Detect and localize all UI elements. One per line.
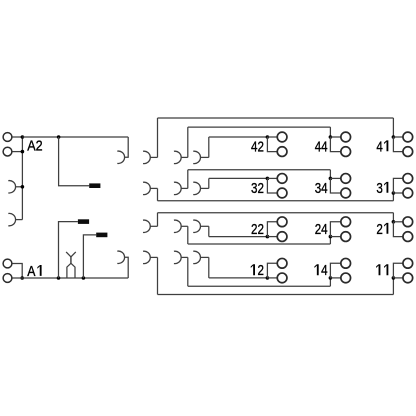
svg-text:4: 4 xyxy=(321,180,327,197)
junction terminal 12 xyxy=(266,276,270,280)
wire bus riser to terminal 44 xyxy=(329,127,331,137)
wire to 44 near circle xyxy=(330,136,340,138)
wire A2 upper circle to bus xyxy=(13,136,23,138)
wire to 44 far circle xyxy=(330,137,340,152)
svg-text:4: 4 xyxy=(321,221,327,238)
wire row4 B dropper xyxy=(187,257,189,286)
wire row1 C riser xyxy=(208,137,210,157)
LED/suppressor bar 1 xyxy=(89,183,100,188)
terminal circle 24 upper xyxy=(341,217,351,227)
junction terminal 32 xyxy=(266,177,270,181)
bus to terminal 34 xyxy=(188,169,331,171)
junction terminal 31 xyxy=(392,191,396,195)
wire to terminal 32 xyxy=(209,177,268,179)
wire bus riser to terminal 11 xyxy=(392,278,394,295)
wire socket to bus xyxy=(16,186,23,188)
junction coil branch on A2 wire xyxy=(57,135,61,139)
svg-text:4: 4 xyxy=(321,262,327,279)
terminal circle 11 upper xyxy=(403,258,413,268)
wire row3 A riser xyxy=(157,213,159,227)
bus to terminal 21 xyxy=(158,212,394,214)
terminal circle A2 (lower) xyxy=(3,147,12,156)
wire A2 branch down to LED bar 1 xyxy=(59,137,90,186)
terminal circle A2 (upper) xyxy=(3,133,12,142)
left plug contact row1 xyxy=(117,151,124,163)
bus to terminal 41 xyxy=(158,117,394,119)
svg-text:A2: A2 xyxy=(27,138,42,155)
terminal circle 12 upper xyxy=(277,258,287,268)
bus to terminal 11 xyxy=(158,294,394,296)
wire row1 A stub xyxy=(150,156,157,158)
wire row2 A stub xyxy=(150,187,157,189)
wire row1 B riser xyxy=(187,127,189,157)
wire row2 B riser xyxy=(187,170,189,189)
wire to 42 near circle xyxy=(267,136,277,138)
wire row4 C dropper xyxy=(208,257,210,278)
plug contact row1 B xyxy=(174,151,181,163)
wire row3 A stub xyxy=(150,225,157,227)
coil crossed symbol (relay coil) xyxy=(66,252,75,278)
wire to 21 far circle xyxy=(393,222,403,237)
terminal circle 32 lower xyxy=(277,188,287,198)
wire to 32 far circle xyxy=(267,178,277,193)
terminal circle 31 upper xyxy=(403,174,413,184)
terminal circle 21 lower xyxy=(403,232,413,242)
wire to 22 near circle xyxy=(267,236,277,238)
pin label 14 xyxy=(314,264,318,275)
junction left bus mid xyxy=(21,185,25,189)
wire A1 main xyxy=(13,277,129,279)
terminal circle 22 lower xyxy=(277,232,287,242)
svg-text:2: 2 xyxy=(257,262,263,279)
junction terminal 14 xyxy=(329,276,333,280)
junction terminal 42 xyxy=(266,135,270,139)
wire to 34 far circle xyxy=(330,178,340,193)
wire row4 A dropper xyxy=(157,257,159,294)
svg-text:2: 2 xyxy=(257,138,263,155)
junction terminal 21 xyxy=(392,220,396,224)
wire to 14 far circle xyxy=(330,263,340,278)
terminal circle 34 upper xyxy=(341,174,351,184)
wire to 41 near circle xyxy=(393,136,403,138)
wire row2 A dropper xyxy=(157,188,159,200)
junction terminal 24 xyxy=(329,235,333,239)
left plug contact row4 xyxy=(117,251,124,263)
wire bus riser to terminal 34 xyxy=(329,170,331,179)
wire to 12 near circle xyxy=(267,277,277,279)
terminal circle 22 upper xyxy=(277,217,287,227)
terminal circle 41 lower xyxy=(403,147,413,157)
junction terminal 34 xyxy=(329,177,333,181)
wire bus riser to terminal 41 xyxy=(392,118,394,137)
terminal circle A1 (lower) xyxy=(3,274,12,283)
junction terminal 11 xyxy=(392,276,396,280)
terminal circle 32 upper xyxy=(277,174,287,184)
LED/suppressor bar 3 xyxy=(96,233,107,238)
wire row1 C stub xyxy=(201,156,209,158)
pin label 12 xyxy=(251,264,255,275)
svg-text:2: 2 xyxy=(376,221,382,238)
wire row4 C stub xyxy=(201,256,209,258)
terminal circle 14 lower xyxy=(341,273,351,283)
wire socket to bus end xyxy=(16,219,23,221)
svg-text:4: 4 xyxy=(376,138,382,155)
socket contact on left bus (bottom) xyxy=(8,213,15,225)
terminal circle 44 lower xyxy=(341,147,351,157)
junction terminal 41 xyxy=(392,135,396,139)
wire row3 B dropper xyxy=(187,226,189,244)
plug contact row3 B xyxy=(174,220,181,232)
wire to 11 far circle xyxy=(393,263,403,278)
wire to 32 near circle xyxy=(267,177,277,179)
wire A2 node to input network xyxy=(22,136,128,138)
plug contact row2 B xyxy=(174,182,181,194)
wire to 11 near circle xyxy=(393,277,403,279)
wire to 42 far circle xyxy=(267,137,277,152)
LED/suppressor bar 2 xyxy=(78,219,89,224)
wire to 21 near circle xyxy=(393,221,403,223)
plug contact row1 C xyxy=(193,151,200,163)
terminal circle 21 upper xyxy=(403,217,413,227)
wire bus riser to terminal 31 xyxy=(392,193,394,201)
terminal circle A1 (upper) xyxy=(3,259,12,268)
wire to terminal 42 xyxy=(209,136,268,138)
terminal circle 11 lower xyxy=(403,273,413,283)
bus to terminal 24 xyxy=(188,243,331,245)
plug contact row4 B xyxy=(174,251,181,263)
terminal circle 42 lower xyxy=(277,147,287,157)
junction terminal 44 xyxy=(329,135,333,139)
terminal circle 42 upper xyxy=(277,132,287,142)
svg-text:A: A xyxy=(27,263,36,280)
wire bus riser to terminal 14 xyxy=(329,278,331,286)
wire row3 B stub xyxy=(181,225,188,227)
left vertical bus from A2 xyxy=(21,137,23,220)
plug contact row2 A xyxy=(143,182,150,194)
plug contact row3 A xyxy=(143,220,150,232)
wire to 12 far circle xyxy=(267,263,277,278)
wire A2 lower circle to bus xyxy=(13,151,23,153)
plug contact row4 C xyxy=(193,251,200,263)
svg-text:2: 2 xyxy=(257,180,263,197)
wire to 34 near circle xyxy=(330,177,340,179)
svg-text:2: 2 xyxy=(257,221,263,238)
wire row4 A stub xyxy=(150,256,157,258)
socket contact on left bus (mid) xyxy=(8,181,15,193)
wire to 24 far circle xyxy=(330,222,340,237)
wire A2 to row1 left plug xyxy=(125,137,129,157)
bus to terminal 31 xyxy=(158,200,394,202)
wire A1 upper circle down to A1 node xyxy=(13,264,23,279)
terminal circle 14 upper xyxy=(341,258,351,268)
plug contact row1 A xyxy=(143,151,150,163)
wire row2 C stub xyxy=(201,187,209,189)
terminal circle 12 lower xyxy=(277,273,287,283)
bus to terminal 44 xyxy=(188,126,331,128)
terminal circle 24 lower xyxy=(341,232,351,242)
wire to 31 near circle xyxy=(393,192,403,194)
junction A2 upper xyxy=(21,135,25,139)
wire to terminal 22 xyxy=(209,236,268,238)
junction A1 xyxy=(20,276,24,280)
terminal circle 41 upper xyxy=(403,132,413,142)
wire up to coil bar 2 xyxy=(59,222,78,278)
wire row3 C stub xyxy=(201,225,209,227)
wire to 22 far circle xyxy=(267,222,277,237)
svg-text:3: 3 xyxy=(376,180,382,197)
junction coil3 branch xyxy=(82,276,86,280)
wire to 14 near circle xyxy=(330,277,340,279)
wire row1 B stub xyxy=(181,156,188,158)
wire to 24 near circle xyxy=(330,236,340,238)
plug contact row4 A xyxy=(143,251,150,263)
junction coil2 branch xyxy=(57,276,61,280)
pin label 11 xyxy=(376,264,380,275)
wire A1 to row4 left plug xyxy=(125,257,129,278)
wire to 41 far circle xyxy=(393,137,403,152)
svg-text:4: 4 xyxy=(321,138,327,155)
plug contact row2 C xyxy=(193,182,200,194)
wire to terminal 12 xyxy=(209,277,268,279)
wire row1 A riser xyxy=(157,118,159,157)
wire up to coil bar 3 xyxy=(83,235,96,278)
bus to terminal 14 xyxy=(188,285,331,287)
wire bus riser to terminal 24 xyxy=(329,237,331,244)
wire row3 C dropper xyxy=(208,226,210,236)
wire row4 B stub xyxy=(181,256,188,258)
wire to 31 far circle xyxy=(393,178,403,193)
plug contact row3 C xyxy=(193,220,200,232)
junction A2 lower xyxy=(21,150,25,154)
wire bus riser to terminal 21 xyxy=(392,213,394,222)
terminal circle 34 lower xyxy=(341,188,351,198)
terminal circle 44 upper xyxy=(341,132,351,142)
junction terminal 22 xyxy=(266,235,270,239)
wire row2 B stub xyxy=(181,187,188,189)
terminal circle 31 lower xyxy=(403,188,413,198)
wire row2 C riser xyxy=(208,178,210,188)
